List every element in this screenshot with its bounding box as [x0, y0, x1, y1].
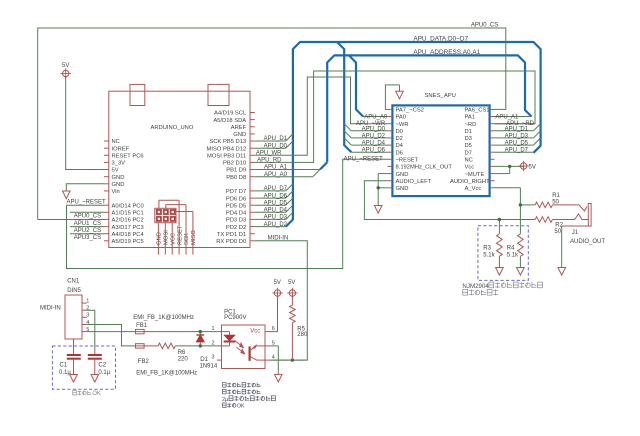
svg-text:NC: NC: [112, 139, 120, 145]
wire APU_A0 (arduino): [255, 176, 313, 178]
wire PA7_~CS2 to ground: [385, 85, 399, 110]
svg-text:MOSI: MOSI: [164, 230, 170, 245]
svg-text:~RD: ~RD: [465, 122, 477, 128]
ground arrow (C1): [70, 375, 78, 383]
svg-text:R4: R4: [507, 246, 515, 252]
svg-text:PD4 D4: PD4 D4: [226, 211, 247, 217]
net labels arduino left CS: [67, 200, 107, 241]
label EMI_FB_1K (bottom): [136, 371, 197, 377]
svg-text:Vcc: Vcc: [465, 165, 475, 171]
power 5V (apu): [518, 161, 535, 171]
svg-text:GND: GND: [396, 186, 409, 192]
svg-text:GND: GND: [157, 232, 163, 245]
svg-text:MISO PB4 D12: MISO PB4 D12: [207, 146, 247, 152]
svg-text:C2: C2: [98, 362, 106, 368]
resistor R1: [535, 193, 560, 208]
svg-text:VCC: VCC: [170, 233, 176, 245]
IC U? SNES_APU body: [392, 105, 489, 196]
svg-text:D1: D1: [465, 129, 472, 135]
arduino power jack box: [208, 84, 229, 105]
svg-text:SCK: SCK: [184, 233, 190, 245]
svg-text:APU_D1: APU_D1: [505, 126, 529, 132]
svg-text:OK: OK: [92, 391, 101, 397]
svg-text:APU_A1: APU_A1: [495, 115, 519, 121]
svg-text:APU_A1: APU_A1: [264, 165, 288, 171]
svg-text:APU_D6: APU_D6: [362, 148, 386, 154]
wire APU_WR path: [255, 77, 388, 155]
svg-text:APU_D5: APU_D5: [264, 200, 288, 206]
svg-text:MIDI-IN: MIDI-IN: [268, 236, 289, 242]
svg-text:APU_D0: APU_D0: [264, 143, 288, 149]
svg-text:EMI_FB_1K@100MHz: EMI_FB_1K@100MHz: [133, 315, 194, 321]
svg-text:A_Vcc: A_Vcc: [465, 186, 482, 192]
svg-text:APU_D5: APU_D5: [505, 141, 529, 147]
svg-text:AUDIO_LEFT: AUDIO_LEFT: [396, 179, 432, 185]
wires arduino data D13-D12,D7-D2: [255, 141, 286, 227]
arduino ICSP wires: [158, 200, 193, 254]
wire din pin4 to FB2: [87, 325, 136, 346]
net labels apu right: [495, 115, 534, 154]
svg-text:PD7 D7: PD7 D7: [226, 189, 246, 195]
svg-text:D4: D4: [396, 143, 404, 149]
ferrite bead FB1: [136, 323, 148, 334]
svg-text:PA6_CS1: PA6_CS1: [465, 108, 490, 114]
svg-text:OK: OK: [237, 404, 245, 410]
svg-text:SCK PB5 D13: SCK PB5 D13: [209, 139, 246, 145]
snes apu pin stubs: [388, 109, 495, 187]
svg-text:APU_A0: APU_A0: [364, 115, 388, 121]
dashed note box (R3 R4): [478, 226, 528, 281]
svg-text:AUDIO_OUT: AUDIO_OUT: [570, 239, 605, 245]
svg-text:GND: GND: [396, 172, 409, 178]
bus label APU_DATA:D0~D7: [413, 35, 468, 42]
wire CS label stubs: [70, 212, 104, 233]
svg-text:5V: 5V: [529, 165, 536, 171]
svg-text:PB0 D8: PB0 D8: [226, 175, 246, 181]
wire din shield to C1: [73, 339, 75, 355]
svg-text:APU3_CS: APU3_CS: [74, 235, 101, 241]
svg-text:APU_D3: APU_D3: [505, 133, 529, 139]
ground arrow (C2): [91, 375, 99, 383]
wire opto pin4 node: [271, 358, 308, 361]
svg-text:5V: 5V: [62, 63, 69, 69]
svg-text:1: 1: [211, 326, 214, 332]
annotation NJM2904 note: [462, 282, 542, 295]
svg-text:NJM2904: NJM2904: [462, 283, 489, 290]
svg-text:~MUTE: ~MUTE: [465, 172, 485, 178]
bus APU_DATA:D0~D7: [286, 42, 541, 227]
wire R6 to opto pin2: [175, 345, 217, 347]
svg-text:APU_RD: APU_RD: [257, 158, 282, 164]
svg-text:A2/D16 PC2: A2/D16 PC2: [112, 218, 144, 224]
opto phototransistor: [250, 345, 265, 361]
svg-text:PA7_~CS2: PA7_~CS2: [396, 108, 424, 114]
svg-text:220: 220: [178, 356, 189, 362]
svg-text:C1: C1: [60, 362, 68, 368]
svg-text:8.192MHz_CLK_OUT: 8.192MHz_CLK_OUT: [396, 165, 453, 171]
wire AUDIO_LEFT: [364, 181, 535, 222]
svg-text:RESET: RESET: [177, 225, 183, 245]
svg-text:IOREF: IOREF: [112, 146, 130, 152]
arduino ICSP header pads: [155, 208, 176, 222]
svg-text:5.1k: 5.1k: [483, 252, 495, 258]
svg-text:APU_A0: APU_A0: [264, 172, 288, 178]
svg-text:PD6 D6: PD6 D6: [226, 196, 246, 202]
connector CN1 DIN5: [65, 279, 89, 339]
wire APU0_CS loop (top): [38, 28, 506, 220]
wire apu Vcc and ~MUTE to 5V: [495, 165, 524, 174]
power 5V (opto): [272, 280, 282, 298]
svg-text:NC: NC: [465, 158, 473, 164]
svg-text:SNES_APU: SNES_APU: [425, 93, 456, 99]
svg-text:A0/D14 PC0: A0/D14 PC0: [112, 203, 144, 209]
svg-text:FB1: FB1: [136, 323, 148, 329]
bus APU_ADDRESS:A0,A1: [313, 55, 532, 176]
svg-text:MOSI PB3 D11: MOSI PB3 D11: [207, 154, 246, 160]
ferrite bead FB2: [136, 344, 150, 365]
svg-text:D2: D2: [396, 136, 403, 142]
svg-text:APU2_CS: APU2_CS: [74, 228, 101, 234]
svg-text:J1: J1: [572, 230, 579, 236]
svg-text:R1: R1: [552, 193, 560, 199]
ground arrow (opto pin5): [275, 374, 283, 382]
svg-text:PD3 D3: PD3 D3: [226, 218, 246, 224]
svg-text:RX PD0 D0: RX PD0 D0: [216, 239, 246, 245]
svg-text:2: 2: [211, 340, 214, 346]
bus entries apu right data pins: [534, 124, 541, 145]
svg-text:AUDIO_RIGHT: AUDIO_RIGHT: [450, 179, 490, 185]
power 5V (R5): [287, 280, 297, 298]
power 5V (top left): [61, 63, 71, 79]
MCU module U? ARDUINO_UNO body: [109, 91, 250, 247]
ground arrow (arduino GND): [63, 191, 71, 199]
wire APU_A0 (apu): [363, 116, 387, 118]
svg-text:Vin: Vin: [112, 189, 120, 195]
svg-text:5V: 5V: [288, 280, 295, 286]
wire opto pin6 to 5V: [271, 296, 278, 332]
svg-text:D3: D3: [465, 136, 472, 142]
svg-text:~RESET: ~RESET: [396, 158, 419, 164]
svg-text:APU_D1: APU_D1: [264, 136, 288, 142]
wire APU_A1 (arduino): [255, 169, 320, 171]
svg-text:~WR: ~WR: [396, 122, 409, 128]
svg-text:1N914: 1N914: [200, 364, 218, 370]
svg-text:50: 50: [554, 229, 561, 235]
svg-text:APU_D0: APU_D0: [362, 126, 386, 132]
wire din pin5 to FB1: [87, 331, 136, 333]
label APU0_CS (top): [471, 22, 498, 28]
connector J1 audio jack: [553, 204, 606, 246]
wire din pin2 to C2: [87, 310, 95, 355]
svg-text:APU_D7: APU_D7: [264, 186, 288, 192]
svg-text:GND: GND: [233, 132, 246, 138]
svg-text:TX PD1 D1: TX PD1 D1: [217, 232, 246, 238]
wire MIDI-IN net: [255, 241, 307, 360]
wire APU_RD path: [255, 71, 535, 162]
svg-text:R6: R6: [178, 350, 186, 356]
svg-text:APU_~RESET: APU_~RESET: [67, 200, 107, 206]
svg-text:A1/D15 PC1: A1/D15 PC1: [112, 211, 144, 217]
diode D1: [196, 332, 217, 370]
arduino USB connector box: [130, 84, 145, 105]
label EMI_FB_1K (top): [133, 315, 194, 321]
svg-text:5V: 5V: [112, 168, 119, 174]
svg-text:1: 1: [86, 298, 89, 304]
svg-text:D0: D0: [396, 129, 403, 135]
dashed note box (C1 C2): [52, 346, 115, 389]
wire arduino GND: [66, 184, 104, 191]
resistor R5: [290, 296, 308, 360]
svg-text:APU_~RESET: APU_~RESET: [344, 157, 384, 163]
svg-text:EMI_FB_1K@100MHz: EMI_FB_1K@100MHz: [136, 371, 197, 377]
svg-text:DIN5: DIN5: [67, 288, 81, 294]
svg-text:A5/D19 PC5: A5/D19 PC5: [112, 239, 144, 245]
opto light arrows: [235, 341, 244, 354]
ground arrow (J1): [558, 268, 566, 276]
svg-text:3: 3: [86, 313, 89, 319]
svg-text:APU_D4: APU_D4: [264, 208, 288, 214]
wire apu GND pins: [377, 174, 388, 206]
svg-text:MIDI-IN: MIDI-IN: [40, 306, 61, 312]
svg-text:APU_WR: APU_WR: [256, 151, 282, 157]
svg-text:APU_ADDRESS:A0,A1: APU_ADDRESS:A0,A1: [413, 49, 480, 56]
svg-text:APU0_CS: APU0_CS: [471, 22, 498, 28]
annotation nakutemo OK: [73, 391, 101, 398]
label ARDUINO_UNO: [151, 125, 194, 131]
wires apu right data D1-D7: [495, 131, 534, 152]
wires apu left data D0-D6: [351, 131, 387, 152]
svg-text:3_3V: 3_3V: [112, 161, 126, 167]
svg-text:APU_D7: APU_D7: [505, 148, 529, 154]
snes apu pin names: [396, 108, 491, 192]
wire APU_~RD (apu right): [495, 123, 536, 125]
svg-text:0.1µ: 0.1µ: [98, 370, 110, 376]
svg-text:APU0_CS: APU0_CS: [74, 213, 101, 219]
svg-text:APU_D6: APU_D6: [264, 193, 288, 199]
arduino pin names: [112, 111, 247, 245]
ground arrow (R3): [496, 268, 504, 276]
svg-text:PB2 D10: PB2 D10: [223, 161, 246, 167]
svg-text:D7: D7: [465, 150, 472, 156]
svg-text:PA1: PA1: [465, 115, 476, 121]
wire opto pin5 to gnd: [271, 346, 279, 375]
svg-text:AREF: AREF: [231, 125, 247, 131]
svg-text:FB2: FB2: [138, 359, 150, 365]
svg-text:RESET PC6: RESET PC6: [112, 154, 144, 160]
svg-text:A4/D18 PC4: A4/D18 PC4: [112, 232, 145, 238]
svg-text:PC900V: PC900V: [224, 315, 246, 321]
svg-text:5V: 5V: [274, 280, 281, 286]
resistor R6: [144, 343, 188, 362]
resistor R3: [483, 220, 502, 268]
svg-text:MISO: MISO: [191, 230, 197, 245]
svg-text:APU_DATA:D0~D7: APU_DATA:D0~D7: [413, 35, 468, 42]
label SNES_APU: [425, 93, 456, 99]
arduino ICSP pin labels: [157, 225, 198, 245]
wire J1 ground: [562, 226, 564, 268]
wire 5V to arduino: [66, 76, 104, 169]
svg-text:GND: GND: [112, 182, 125, 188]
svg-text:D1: D1: [200, 357, 208, 363]
svg-text:APU_D3: APU_D3: [264, 215, 288, 221]
svg-text:D6: D6: [396, 150, 403, 156]
opto LED: [222, 332, 236, 346]
svg-text:APU_D4: APU_D4: [362, 141, 386, 147]
svg-text:PD2 D2: PD2 D2: [226, 225, 246, 231]
resistor R2: [535, 217, 564, 235]
svg-text:APU_D2: APU_D2: [362, 133, 386, 139]
label Vcc (opto): [250, 329, 260, 335]
ground arrow (PA7): [396, 91, 404, 99]
wire APU_A1 (apu right): [495, 116, 532, 118]
svg-text:Vcc: Vcc: [250, 329, 260, 335]
ground arrow (R4): [517, 268, 525, 276]
svg-text:5.1k: 5.1k: [507, 252, 519, 258]
wire APU_~RESET net: [67, 159, 388, 268]
annotation photocoupler note: [222, 383, 275, 410]
bus entries arduino data pins: [286, 134, 293, 220]
label MIDI-IN (din): [40, 306, 61, 312]
capacitor C1: [59, 355, 81, 376]
wire FB1 to opto pin1: [144, 331, 217, 333]
svg-text:CN1: CN1: [67, 279, 80, 285]
ground arrow (apu GND): [374, 206, 382, 214]
svg-text:PA0: PA0: [396, 115, 407, 121]
svg-text:APU_D2: APU_D2: [264, 222, 288, 228]
svg-text:PD5 D5: PD5 D5: [226, 203, 246, 209]
junction dots D1: [199, 330, 202, 348]
svg-text:PB1 D9: PB1 D9: [226, 168, 246, 174]
svg-text:A3/D17 PC3: A3/D17 PC3: [112, 225, 144, 231]
arduino pin stubs: [104, 113, 255, 241]
svg-text:3: 3: [211, 355, 214, 361]
svg-text:2µ: 2µ: [222, 397, 228, 403]
optocoupler PC1 body: [211, 310, 274, 369]
capacitor C2: [88, 355, 111, 376]
svg-text:ARDUINO_UNO: ARDUINO_UNO: [151, 125, 194, 131]
net labels arduino right: [256, 136, 288, 241]
wire AUDIO_RIGHT: [495, 188, 536, 234]
svg-text:APU1_CS: APU1_CS: [74, 221, 101, 227]
svg-text:GND: GND: [112, 175, 125, 181]
svg-text:R3: R3: [483, 246, 491, 252]
bus entries apu left data pins: [344, 124, 351, 145]
svg-text:0.1µ: 0.1µ: [59, 370, 71, 376]
svg-text:A5/D18 SDA: A5/D18 SDA: [213, 118, 246, 124]
resistor R4: [507, 234, 523, 268]
bus label APU_ADDRESS:A0,A1: [413, 49, 480, 56]
svg-text:D5: D5: [465, 143, 472, 149]
net labels apu left: [344, 115, 388, 163]
svg-text:A4/D19 SCL: A4/D19 SCL: [214, 111, 247, 117]
svg-text:280: 280: [297, 332, 308, 338]
